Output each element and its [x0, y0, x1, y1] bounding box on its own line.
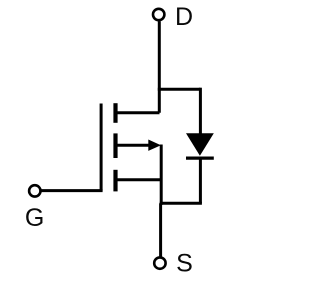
wire diode branch lower — [199, 157, 202, 204]
diode D1 body diode — [186, 133, 214, 156]
svg-text:G: G — [25, 204, 44, 232]
MOSFET Q1 top channel bar (drain) — [113, 103, 117, 123]
MOSFET Q1 middle channel bar (body) — [113, 133, 117, 158]
MOSFET Q1 drain lead — [116, 111, 160, 114]
svg-text:S: S — [176, 249, 193, 277]
svg-text:D: D — [175, 3, 193, 31]
wire drain vertical — [158, 21, 161, 112]
MOSFET Q1 source lead — [116, 178, 162, 181]
MOSFET Q1 bottom channel bar (source) — [113, 170, 117, 192]
wire source junction horizontal — [160, 202, 202, 205]
wire gate horizontal — [42, 189, 103, 192]
terminal S — [154, 257, 165, 268]
terminal G — [29, 185, 40, 196]
MOSFET Q1 body lead with arrow — [116, 144, 151, 147]
wire source terminal vertical — [159, 203, 162, 256]
MOSFET Q1 body arrowhead — [148, 140, 161, 151]
wire drain-to-diode branch — [158, 88, 201, 91]
diode cathode bar — [186, 157, 214, 160]
wire body-to-source vertical — [160, 145, 163, 205]
wire diode branch upper — [199, 88, 202, 135]
terminal D — [153, 9, 164, 20]
MOSFET Q1 gate line — [100, 104, 103, 191]
